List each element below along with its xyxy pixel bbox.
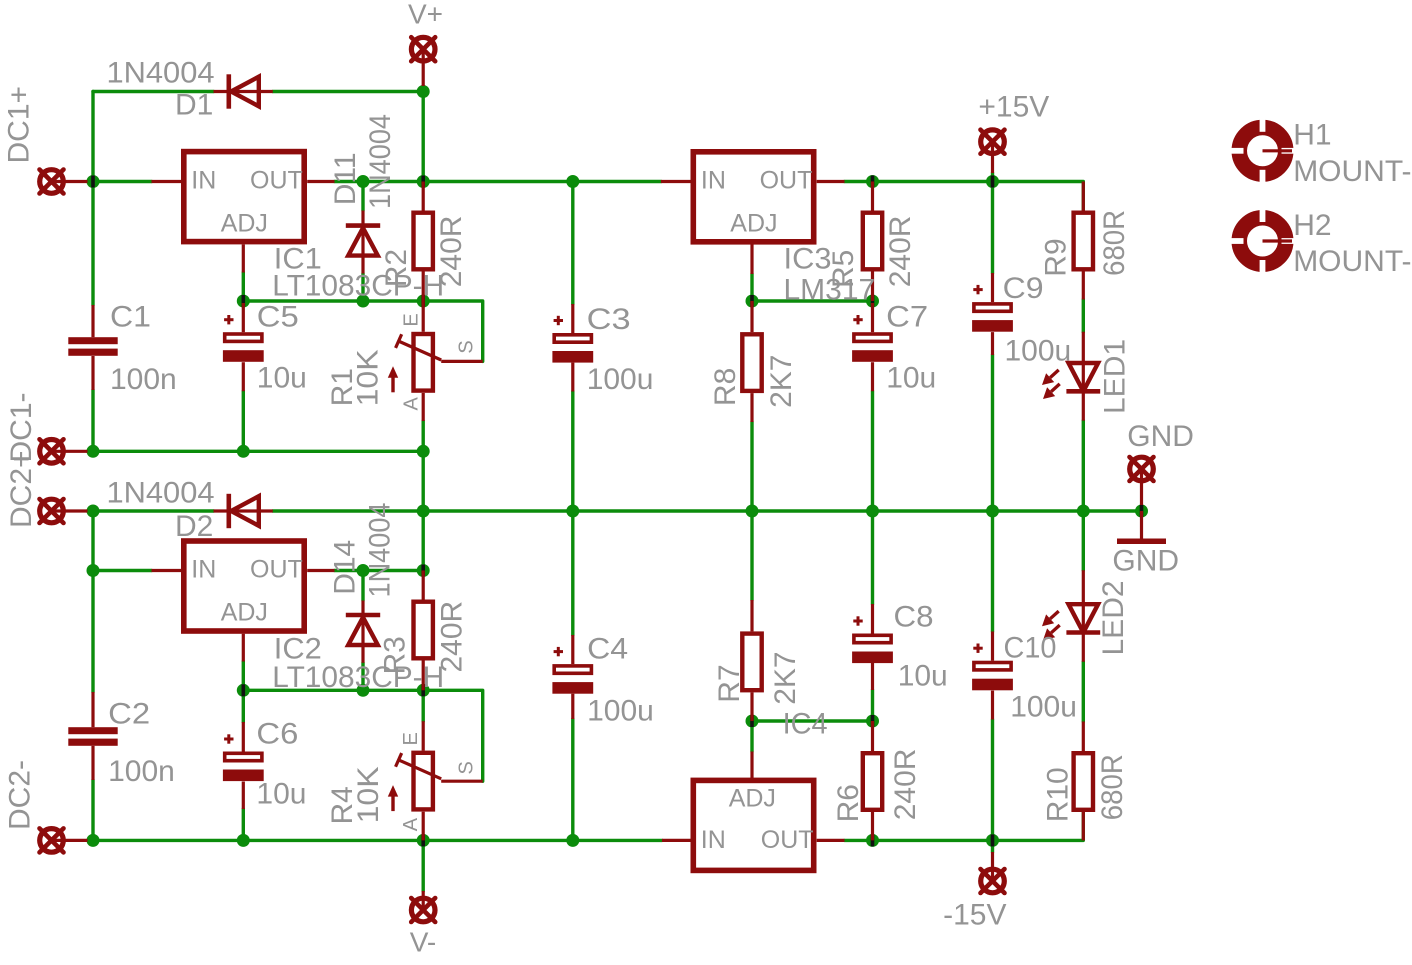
junction DC2+ pad node xyxy=(87,505,100,518)
wire mid rail R1 vertical to C3 xyxy=(423,509,573,512)
pin name IC1 ADJ xyxy=(221,210,268,238)
pin name IC1 OUT xyxy=(250,166,303,194)
wire mid rail down to IC2 OUT row xyxy=(422,511,425,571)
junction OUT2-D14 node xyxy=(357,564,370,577)
junction mid rail LED node xyxy=(1077,505,1090,518)
svg-text:GND: GND xyxy=(1112,545,1179,578)
pin IC4 OUT xyxy=(817,839,845,842)
pin C1 top xyxy=(91,305,94,337)
svg-text:LED2: LED2 xyxy=(1097,580,1130,655)
name C2 xyxy=(108,698,150,731)
pad V- xyxy=(411,898,435,922)
pin label R4 A xyxy=(400,817,422,831)
wire R1 bottom to DC1- rail xyxy=(422,421,425,451)
junction ADJ2-R3-R4 node xyxy=(417,684,430,697)
value H1 MOUNT-PAD xyxy=(1293,155,1411,188)
pin C7 bottom xyxy=(871,362,874,391)
junction +15V pad node xyxy=(986,175,999,188)
junction OUT2-R3 node xyxy=(417,564,430,577)
pin name IC4 ADJ xyxy=(729,785,776,813)
value C2 100n xyxy=(108,755,175,788)
svg-text:240R: 240R xyxy=(889,749,922,821)
wire LED2 top from mid rail xyxy=(1082,511,1085,570)
wire OUT rail D11 to R2 xyxy=(363,180,423,183)
pin C9 bottom xyxy=(991,332,994,355)
pin R3 bottom xyxy=(422,661,425,691)
pin R8 top xyxy=(750,301,753,332)
wire C7 bottom to mid rail xyxy=(871,391,874,511)
wire IC4 ADJ pin wire xyxy=(750,721,753,752)
wire IC3 OUT to R5 node xyxy=(845,180,873,183)
capacitor C6 10u xyxy=(223,734,264,781)
svg-text:D2: D2 xyxy=(175,510,213,543)
junction mid rail R8-R7 xyxy=(746,505,759,518)
svg-text:2K7: 2K7 xyxy=(765,355,798,408)
name C10 xyxy=(1004,632,1057,665)
wire mid rail R8 to C7 xyxy=(752,509,873,512)
svg-text:R7: R7 xyxy=(713,664,746,702)
pin GND pad xyxy=(1140,469,1143,505)
svg-text:C7: C7 xyxy=(886,300,928,333)
pin R5 bottom xyxy=(871,272,874,302)
pin name IC4 IN xyxy=(701,826,726,854)
pin label R1 A xyxy=(401,397,423,411)
junction ADJ1-C5 node xyxy=(237,295,250,308)
value R1 10K xyxy=(352,349,385,406)
diode D14 1N4004 xyxy=(346,601,380,663)
capacitor C4 100u xyxy=(552,647,593,694)
svg-text:R9: R9 xyxy=(1040,238,1073,276)
wire C6 bottom to DC2- rail xyxy=(242,809,245,840)
pin C7 top xyxy=(871,303,874,332)
wire DC1- to GND mid rail vertical xyxy=(422,451,425,511)
svg-text:10K: 10K xyxy=(352,349,385,406)
pin C5 top xyxy=(242,303,245,332)
wire C4 top from mid rail xyxy=(571,511,574,635)
svg-text:240R: 240R xyxy=(884,216,917,288)
diode D2 1N4004 xyxy=(214,494,273,528)
label net DC1+ xyxy=(3,86,36,164)
svg-text:DC1+: DC1+ xyxy=(3,86,36,164)
wire OUT rail C3 to IC3 IN pin xyxy=(573,180,661,183)
value R8 2K7 xyxy=(765,355,798,408)
svg-text:ADJ: ADJ xyxy=(729,785,776,813)
value C6 10u xyxy=(256,778,306,811)
wire C3 bottom to mid rail xyxy=(571,392,574,512)
svg-text:IC3: IC3 xyxy=(784,242,832,275)
wire V+ net top segment xyxy=(93,90,214,93)
wire C8 top from mid rail xyxy=(871,511,874,604)
wire mid rail C3 to R8 xyxy=(573,509,752,512)
name R4 xyxy=(326,786,359,824)
value IC2 LT1083CP-H xyxy=(272,661,444,694)
value R7 2K7 xyxy=(769,651,802,704)
pin label R1 E xyxy=(401,313,423,326)
name C7 xyxy=(886,300,928,333)
name D14 xyxy=(329,540,362,595)
svg-text:240R: 240R xyxy=(436,601,469,673)
wire DC1+ pad stub to junction xyxy=(88,180,94,183)
pin R2 top xyxy=(422,182,425,211)
pin +15V pad xyxy=(991,142,994,173)
value C7 10u xyxy=(886,361,936,394)
wire ADJ2 rail to R4 wiper corner xyxy=(423,690,483,781)
pin label R1 S xyxy=(456,340,478,353)
svg-text:GND: GND xyxy=(1127,420,1194,453)
wire C1 top from DC1+ rail xyxy=(91,182,94,306)
svg-text:100n: 100n xyxy=(110,363,177,396)
value R4 10K xyxy=(352,766,385,823)
junction ADJ2-C6 node xyxy=(237,684,250,697)
wire DC2+ pad stub to junction xyxy=(88,509,94,512)
svg-text:R6: R6 xyxy=(832,784,865,822)
pin IC1 IN xyxy=(152,180,182,183)
svg-text:C5: C5 xyxy=(257,300,299,333)
svg-text:R5: R5 xyxy=(827,250,860,288)
svg-text:100u: 100u xyxy=(587,363,654,396)
svg-text:C1: C1 xyxy=(110,300,151,333)
svg-text:D1: D1 xyxy=(175,89,213,122)
resistor R8 2K7 xyxy=(742,334,761,391)
wire mid rail C9 to LED1 xyxy=(993,509,1084,512)
pin R8 bottom xyxy=(750,393,753,422)
wire IC2 ADJ pin to ADJ rail xyxy=(242,662,245,691)
pad DC1- xyxy=(40,439,64,463)
wire IC2 OUT to D14 node xyxy=(335,569,364,572)
svg-text:MOUNT-: MOUNT- xyxy=(1293,155,1411,188)
svg-text:1N4004: 1N4004 xyxy=(364,114,397,209)
pin C2 top xyxy=(91,692,94,727)
svg-text:H2: H2 xyxy=(1293,209,1331,242)
capacitor C1 100n xyxy=(68,337,117,356)
svg-text:C3: C3 xyxy=(587,303,631,336)
pin R1 E xyxy=(422,301,425,332)
svg-text:R8: R8 xyxy=(709,368,742,406)
wire DC1- rail xyxy=(93,450,423,453)
pin IC3 OUT xyxy=(817,180,845,183)
svg-text:OUT: OUT xyxy=(760,166,813,194)
svg-text:10u: 10u xyxy=(256,778,306,811)
name R1 xyxy=(326,368,359,406)
name LED2 xyxy=(1097,580,1130,655)
name C8 xyxy=(894,601,934,634)
wire bottom rail R6 to C10 xyxy=(873,839,993,842)
pin V- pad xyxy=(422,891,425,910)
junction OUT1-D11 node xyxy=(357,175,370,188)
value C5 10u xyxy=(257,361,307,394)
capacitor C9 100u xyxy=(972,285,1013,332)
svg-text:A: A xyxy=(400,817,422,831)
value D1 1N4004 xyxy=(107,57,215,90)
svg-text:LT1083CP-H: LT1083CP-H xyxy=(272,270,444,303)
capacitor C5 10u xyxy=(223,315,264,362)
name C4 xyxy=(587,632,628,665)
wire R4 E wire xyxy=(422,690,425,721)
wire D14 bottom to ADJ rail xyxy=(361,663,364,691)
svg-text:10u: 10u xyxy=(898,660,948,693)
junction IC4 ADJ-R7 node xyxy=(746,715,759,728)
name R8 xyxy=(709,368,742,406)
pin R6 bottom xyxy=(871,812,874,840)
LED LED2 xyxy=(1042,570,1100,662)
wire R9 bottom to LED1 xyxy=(1082,300,1085,333)
junction mid rail C3-C4 xyxy=(566,505,579,518)
value R5 240R xyxy=(884,216,917,288)
pin R3 top xyxy=(422,571,425,600)
name R10 xyxy=(1042,767,1075,822)
pin R7 bottom xyxy=(750,692,753,721)
wire C5 bottom to DC1- rail xyxy=(242,391,245,451)
wire C8 bottom to ADJ3 rail xyxy=(871,690,874,721)
wire V+ node down to OUT rail xyxy=(422,92,425,182)
pin C5 bottom xyxy=(242,362,245,391)
svg-text:S: S xyxy=(456,340,478,353)
name R2 xyxy=(380,249,413,287)
svg-text:100u: 100u xyxy=(587,695,654,728)
wire R8 bottom to mid rail xyxy=(750,422,753,511)
wire V+ net from D1 cathode to V+ node xyxy=(273,90,423,93)
resistor R10 680R xyxy=(1074,753,1093,810)
name H2 xyxy=(1293,209,1331,242)
svg-text:240R: 240R xyxy=(435,216,468,288)
junction -15V pad node xyxy=(986,834,999,847)
pin C3 bottom xyxy=(571,363,574,392)
svg-text:10u: 10u xyxy=(886,361,936,394)
junction ADJ3-R5-C7 node xyxy=(866,295,879,308)
name R5 xyxy=(827,250,860,288)
wire mid rail C7 to C9 xyxy=(873,509,993,512)
junction ADJ1-D11 node xyxy=(357,295,370,308)
svg-text:100u: 100u xyxy=(1010,691,1077,724)
potentiometer R1 10K xyxy=(388,334,441,392)
potentiometer R4 10K xyxy=(388,753,441,811)
wire IC2 IN junction to pin xyxy=(93,569,152,572)
svg-text:IN: IN xyxy=(701,826,726,854)
svg-text:C9: C9 xyxy=(1003,272,1044,305)
junction GND stub node xyxy=(1135,505,1148,518)
pin C9 top xyxy=(991,273,994,302)
label ground symbol GND xyxy=(1112,545,1179,578)
svg-text:OUT: OUT xyxy=(250,166,303,194)
pin R10 bottom xyxy=(1082,812,1085,840)
wire +15V pad stub xyxy=(991,173,994,182)
name D11 xyxy=(329,152,362,205)
wire D11 top pin to OUT rail xyxy=(361,182,364,211)
svg-text:LT1083CP-H: LT1083CP-H xyxy=(272,661,444,694)
name C5 xyxy=(257,300,299,333)
pin C8 bottom xyxy=(871,663,874,690)
pin R9 top xyxy=(1082,182,1085,211)
svg-text:1N4004: 1N4004 xyxy=(364,503,397,598)
wire C10 bottom to rail xyxy=(991,720,994,841)
svg-text:V+: V+ xyxy=(408,0,443,29)
pin C6 bottom xyxy=(242,782,245,810)
junction DC1- pad node xyxy=(87,445,100,458)
value IC3 LM317 xyxy=(784,274,876,307)
wire DC2- rail C6 to R4 xyxy=(243,839,423,842)
op-amp regulator IC4 LM317 xyxy=(693,780,813,870)
name H1 xyxy=(1293,119,1331,152)
pin V+ pad xyxy=(422,49,425,86)
svg-text:E: E xyxy=(401,313,423,326)
junction DC2- pad node xyxy=(87,834,100,847)
pin label R4 S xyxy=(456,761,478,774)
wire IC1 OUT to D11 node xyxy=(335,180,364,183)
name R7 xyxy=(713,664,746,702)
resistor R7 2K7 xyxy=(742,634,761,691)
name C6 xyxy=(256,718,298,751)
resistor R2 240R xyxy=(414,213,433,270)
wire C10 top from mid rail xyxy=(991,511,994,632)
pin DC1- pad xyxy=(52,450,88,453)
svg-text:DC2-: DC2- xyxy=(4,760,37,830)
diode D1 1N4004 xyxy=(214,74,273,108)
svg-text:H1: H1 xyxy=(1293,119,1331,152)
name IC3 xyxy=(784,242,832,275)
svg-text:OUT: OUT xyxy=(250,555,303,583)
pin R9 bottom xyxy=(1082,272,1085,300)
svg-text:100u: 100u xyxy=(1005,335,1072,368)
capacitor C10 100u xyxy=(972,644,1013,691)
mounting hole H1 MOUNT-PAD xyxy=(1229,117,1296,184)
wire DC2- rail to C6 xyxy=(93,839,243,842)
svg-text:R2: R2 xyxy=(380,249,413,287)
svg-text:IN: IN xyxy=(191,166,216,194)
resistor R6 240R xyxy=(863,753,882,810)
label net +15V xyxy=(978,90,1049,123)
junction mid rail C9-C10 xyxy=(986,505,999,518)
svg-text:R3: R3 xyxy=(379,636,412,674)
pad +15V xyxy=(981,130,1005,154)
name C9 xyxy=(1003,272,1044,305)
svg-text:IC4: IC4 xyxy=(783,708,828,741)
wire ADJ rail to R1 wiper corner xyxy=(423,301,483,361)
capacitor C8 10u xyxy=(852,616,893,663)
svg-text:IN: IN xyxy=(701,166,726,194)
pad -15V xyxy=(981,869,1005,893)
pin name IC2 ADJ xyxy=(221,599,268,627)
svg-text:S: S xyxy=(456,761,478,774)
pin IC3 IN xyxy=(661,180,691,183)
name R9 xyxy=(1040,238,1073,276)
pad DC2+ xyxy=(40,499,64,523)
svg-text:1N4004: 1N4004 xyxy=(107,477,215,510)
wire IC4 ADJ rail xyxy=(752,719,873,722)
wire R7 top from mid rail xyxy=(750,511,753,600)
value C3 100u xyxy=(587,363,654,396)
pin name IC4 OUT xyxy=(761,826,814,854)
pin R4 A xyxy=(422,812,425,841)
junction OUT1-C3 node xyxy=(566,175,579,188)
wire C1 bottom to DC1- rail xyxy=(91,390,94,451)
pin R7 top xyxy=(750,600,753,631)
op-amp regulator IC3 LM317 xyxy=(693,152,813,242)
pin C10 top xyxy=(991,632,994,661)
svg-text:680R: 680R xyxy=(1098,210,1131,276)
pin name IC3 ADJ xyxy=(730,210,777,238)
pin R6 top xyxy=(871,721,874,751)
label net DC2- xyxy=(4,760,37,830)
pin C4 top xyxy=(571,635,574,664)
value C10 100u xyxy=(1010,691,1077,724)
resistor R9 680R xyxy=(1074,213,1093,270)
pin DC2+ pad xyxy=(52,509,88,512)
value H2 MOUNT-PAD xyxy=(1293,245,1411,278)
svg-text:C10: C10 xyxy=(1004,632,1057,665)
svg-text:C2: C2 xyxy=(108,698,150,731)
pin name IC1 IN xyxy=(191,166,216,194)
svg-text:ADJ: ADJ xyxy=(221,599,268,627)
mounting hole H2 MOUNT-PAD xyxy=(1229,208,1296,275)
wire D14 top pin from OUT row xyxy=(361,571,364,601)
svg-text:ADJ: ADJ xyxy=(221,210,268,238)
svg-text:MOUNT-: MOUNT- xyxy=(1293,245,1411,278)
svg-text:A: A xyxy=(401,397,423,411)
svg-text:LED1: LED1 xyxy=(1099,339,1132,414)
wire OUT rail R2 to C3 xyxy=(423,180,573,183)
wire C2 bottom to DC2- rail xyxy=(91,780,94,840)
svg-text:OUT: OUT xyxy=(761,826,814,854)
pin C6 top xyxy=(242,722,245,752)
wire bottom rail C10 to R10 corner xyxy=(993,812,1084,840)
pin R5 top xyxy=(871,182,874,211)
wire DC2- rail R4 to C4 xyxy=(423,839,573,842)
wire IC1 ADJ pin to ADJ rail xyxy=(242,273,245,302)
label net V- xyxy=(410,927,436,958)
pin IC4 ADJ xyxy=(750,752,753,780)
junction ADJ3-R8 node xyxy=(746,295,759,308)
label net DC2+ xyxy=(5,450,38,528)
pin C4 bottom xyxy=(571,694,574,719)
svg-text:100n: 100n xyxy=(108,755,175,788)
junction DC1- C5 node xyxy=(237,445,250,458)
wire C9 top from +15V rail xyxy=(991,182,994,274)
pin IC2 IN xyxy=(152,569,182,572)
pin IC2 ADJ xyxy=(242,634,245,662)
svg-text:D14: D14 xyxy=(329,540,362,595)
wire IC3 ADJ pin to ADJ rail xyxy=(750,274,753,301)
resistor R3 240R xyxy=(414,602,433,659)
wire -15V pad stub upper xyxy=(991,840,994,852)
value IC1 LT1083CP-H xyxy=(272,270,444,303)
pad V+ xyxy=(411,37,435,61)
svg-text:-15V: -15V xyxy=(943,899,1006,932)
svg-text:IN: IN xyxy=(191,555,216,583)
junction IC2 IN node xyxy=(87,564,100,577)
label net DC1- xyxy=(5,392,38,462)
label net GND top xyxy=(1127,420,1194,453)
pin C10 bottom xyxy=(991,691,994,720)
junction ADJ1-R1 node xyxy=(417,295,430,308)
name C3 xyxy=(587,303,631,336)
wire D11 bottom to ADJ rail xyxy=(361,274,364,302)
LED LED1 xyxy=(1042,332,1100,421)
pin IC1 OUT xyxy=(307,180,334,183)
pin name IC2 IN xyxy=(191,555,216,583)
wire mid rail LED1 to GND stub xyxy=(1083,509,1141,512)
value C4 100u xyxy=(587,695,654,728)
name R6 xyxy=(832,784,865,822)
junction ADJ2-D14 node xyxy=(357,684,370,697)
pad DC2- xyxy=(40,828,64,852)
pin DC2- pad xyxy=(52,839,88,842)
value D11 1N4004 xyxy=(364,114,397,209)
pin IC1 ADJ xyxy=(242,245,245,273)
pin IC4 IN xyxy=(662,839,691,842)
wire C3 top pin from OUT rail xyxy=(571,182,574,305)
svg-text:D11: D11 xyxy=(329,152,362,205)
name IC1 xyxy=(274,242,322,275)
